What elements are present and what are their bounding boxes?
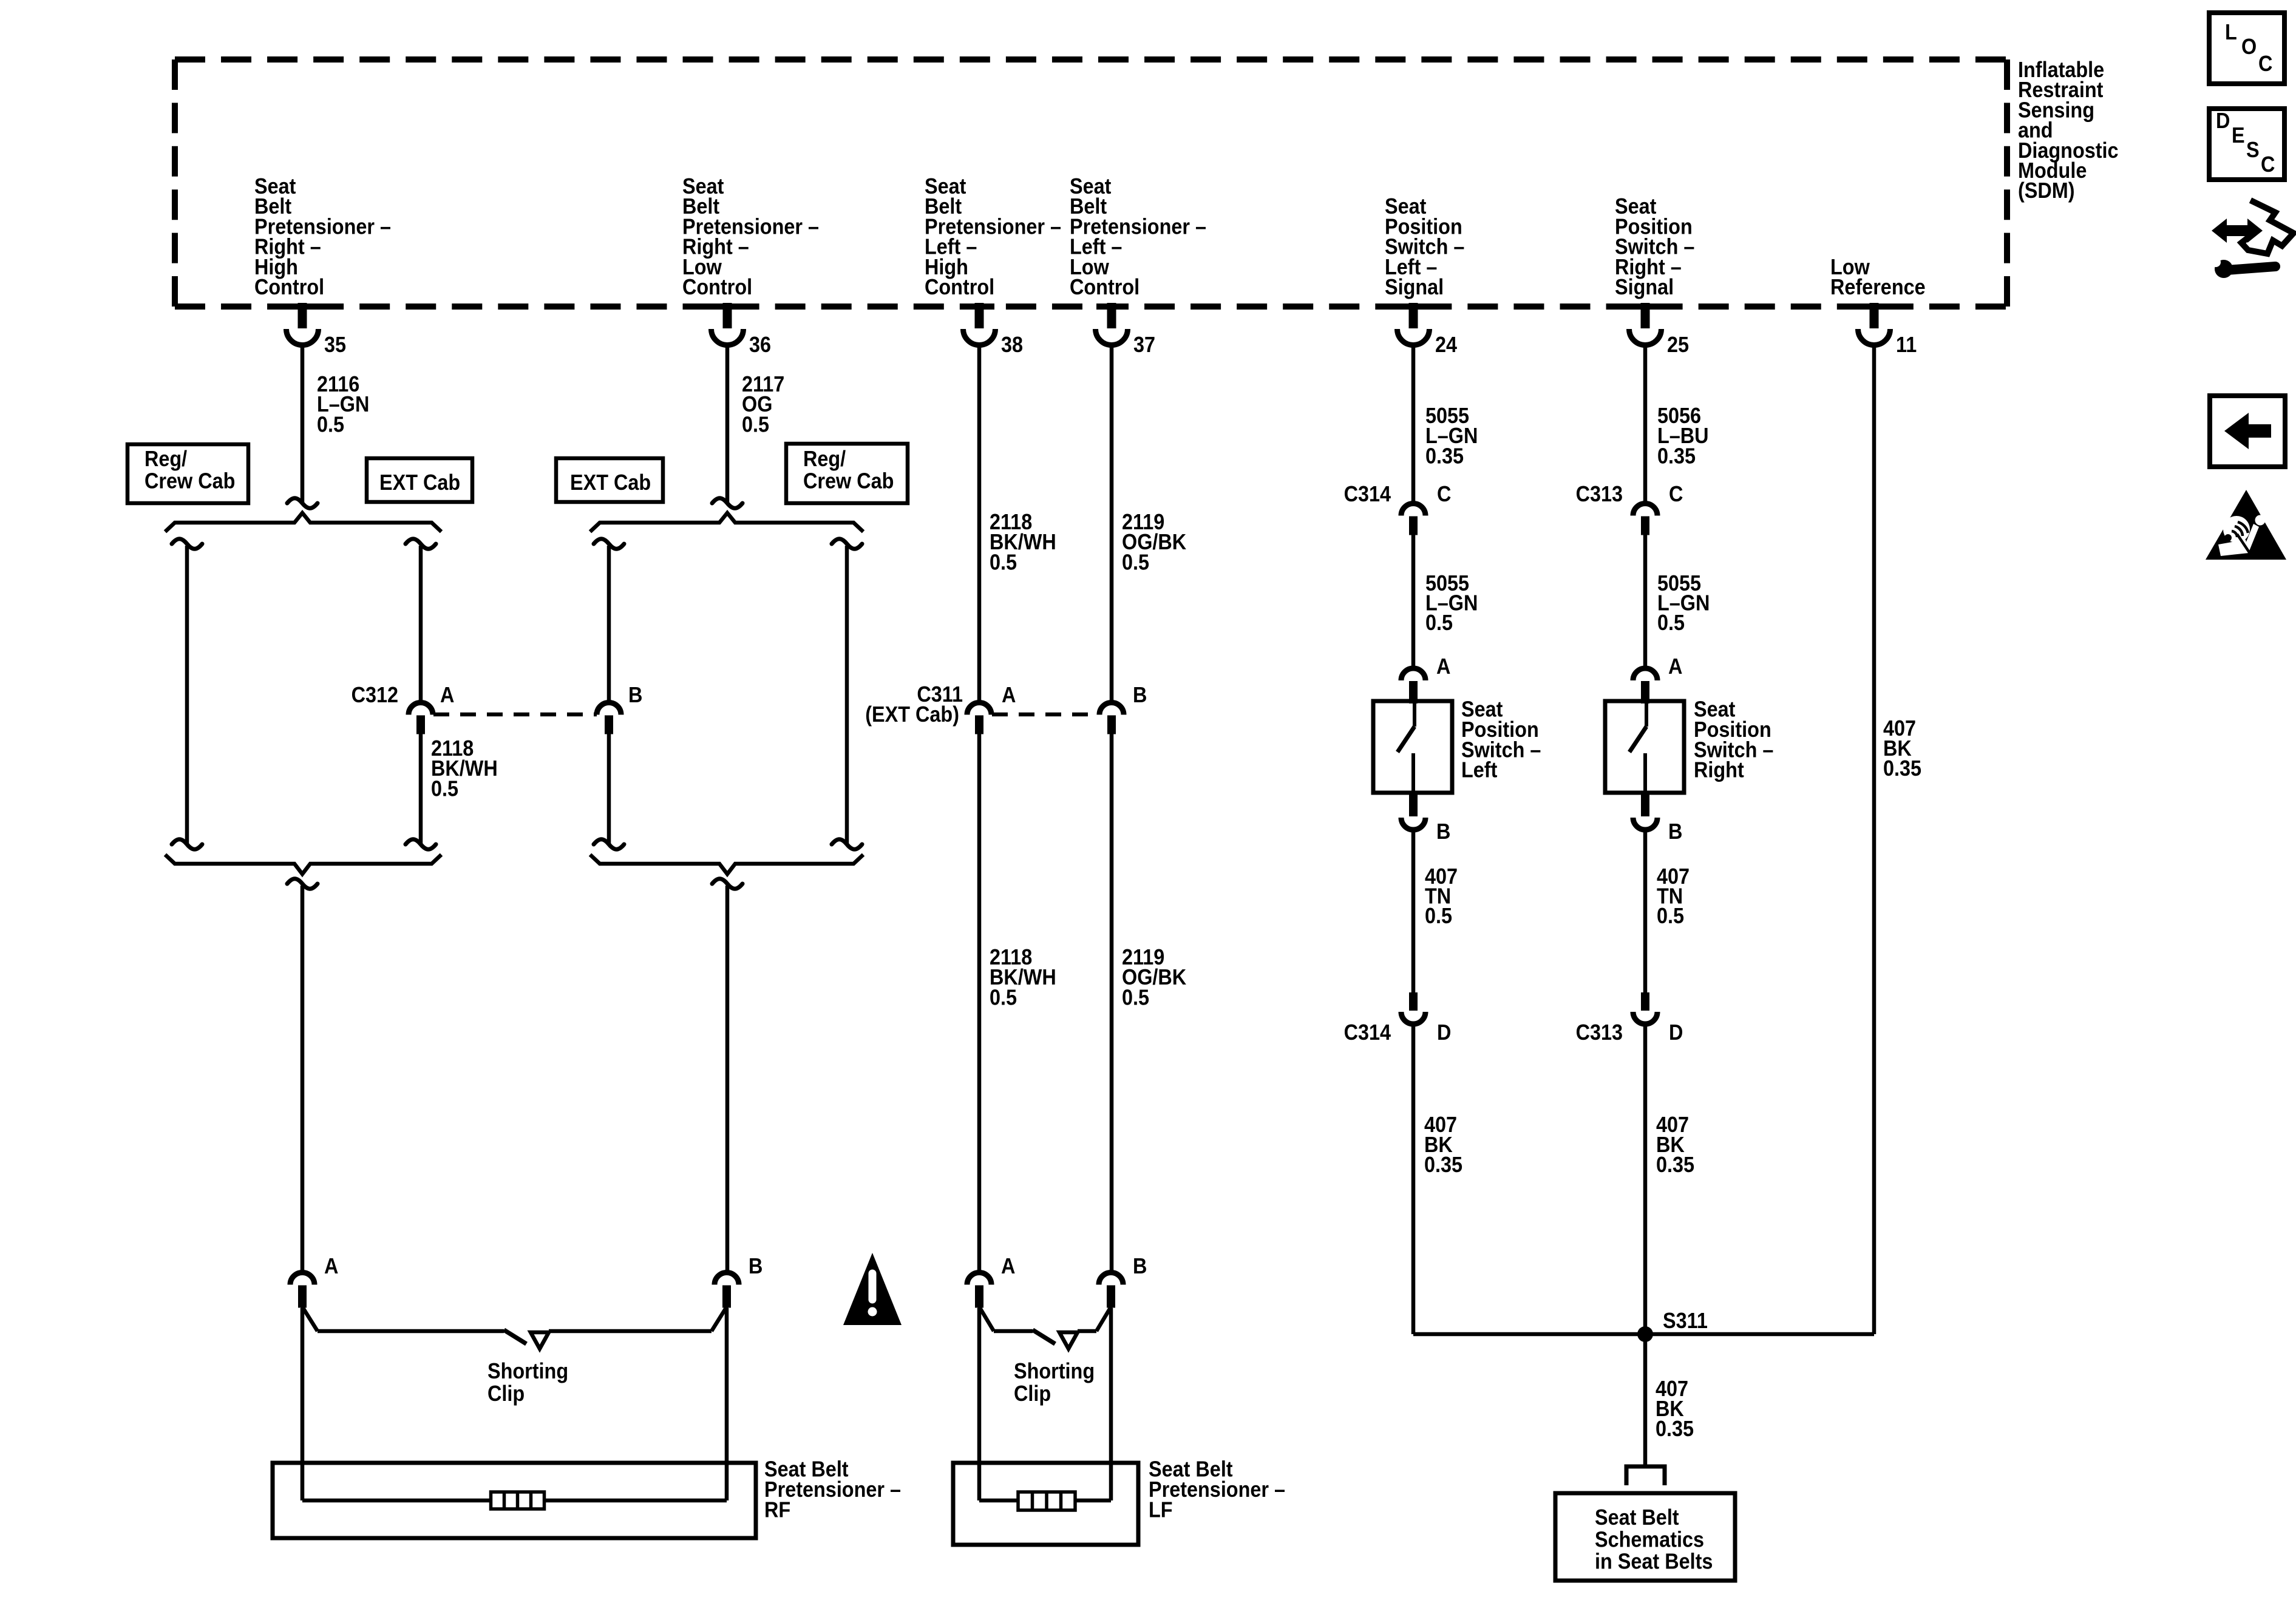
svg-text:Clip: Clip	[1014, 1381, 1051, 1406]
svg-text:B: B	[1133, 1254, 1147, 1278]
svg-text:0.35: 0.35	[1883, 756, 1921, 781]
svg-text:36: 36	[749, 333, 771, 357]
svg-text:B: B	[749, 1254, 763, 1278]
svg-text:Crew Cab: Crew Cab	[803, 469, 894, 493]
svg-text:0.35: 0.35	[1657, 444, 1696, 469]
svg-text:0.5: 0.5	[317, 413, 344, 437]
svg-text:EXT Cab: EXT Cab	[570, 470, 651, 495]
svg-text:(EXT Cab): (EXT Cab)	[865, 703, 959, 727]
svg-text:Left: Left	[1461, 758, 1497, 782]
svg-text:0.5: 0.5	[1657, 904, 1684, 928]
svg-text:Seat Belt: Seat Belt	[1595, 1505, 1679, 1530]
svg-text:Shorting: Shorting	[487, 1359, 568, 1383]
svg-text:D: D	[1437, 1020, 1451, 1045]
svg-text:B: B	[628, 683, 642, 707]
svg-text:Control: Control	[925, 275, 994, 299]
svg-text:11: 11	[1896, 333, 1917, 357]
svg-text:C313: C313	[1576, 482, 1623, 506]
svg-text:(SDM): (SDM)	[2018, 179, 2075, 203]
svg-text:0.5: 0.5	[1425, 904, 1452, 928]
svg-text:0.35: 0.35	[1425, 444, 1464, 469]
svg-text:A: A	[440, 683, 454, 707]
svg-text:LF: LF	[1149, 1498, 1173, 1522]
svg-text:EXT Cab: EXT Cab	[379, 470, 460, 495]
svg-text:D: D	[2216, 109, 2230, 133]
svg-text:Signal: Signal	[1615, 275, 1674, 299]
svg-text:Right: Right	[1694, 758, 1744, 782]
svg-text:C: C	[1669, 482, 1683, 506]
svg-text:C313: C313	[1576, 1020, 1623, 1045]
svg-text:C: C	[1437, 482, 1451, 506]
svg-text:Reference: Reference	[1830, 275, 1926, 299]
svg-text:38: 38	[1001, 333, 1023, 357]
svg-text:L: L	[2225, 20, 2237, 44]
svg-text:RF: RF	[764, 1498, 790, 1522]
svg-text:0.5: 0.5	[1657, 611, 1685, 635]
svg-text:O: O	[2241, 35, 2257, 59]
svg-text:Reg/: Reg/	[144, 447, 188, 471]
svg-text:A: A	[1436, 654, 1450, 679]
svg-text:A: A	[1002, 683, 1016, 707]
svg-text:Control: Control	[254, 275, 324, 299]
svg-text:C314: C314	[1344, 1020, 1391, 1045]
svg-text:Shorting: Shorting	[1014, 1359, 1095, 1383]
svg-text:B: B	[1668, 819, 1682, 844]
svg-text:Clip: Clip	[487, 1381, 525, 1406]
svg-text:0.5: 0.5	[1425, 611, 1453, 635]
svg-text:Crew Cab: Crew Cab	[144, 469, 235, 493]
svg-text:C: C	[2261, 152, 2275, 177]
svg-text:Schematics: Schematics	[1595, 1528, 1704, 1552]
svg-text:B: B	[1436, 819, 1450, 844]
svg-text:in Seat Belts: in Seat Belts	[1595, 1550, 1713, 1574]
svg-text:A: A	[324, 1254, 338, 1278]
svg-text:A: A	[1668, 654, 1682, 679]
svg-text:Reg/: Reg/	[803, 447, 846, 471]
svg-text:25: 25	[1667, 333, 1689, 357]
svg-text:0.5: 0.5	[431, 777, 458, 801]
svg-text:0.5: 0.5	[1122, 986, 1149, 1010]
svg-text:E: E	[2232, 123, 2245, 147]
svg-text:35: 35	[324, 333, 346, 357]
svg-text:0.35: 0.35	[1656, 1153, 1694, 1177]
svg-text:0.5: 0.5	[990, 986, 1017, 1010]
svg-text:0.35: 0.35	[1656, 1417, 1694, 1441]
svg-text:Control: Control	[1070, 275, 1140, 299]
svg-text:B: B	[1133, 683, 1147, 707]
svg-text:0.5: 0.5	[742, 413, 769, 437]
svg-text:A: A	[1001, 1254, 1015, 1278]
svg-text:C314: C314	[1344, 482, 1391, 506]
svg-text:S311: S311	[1663, 1309, 1708, 1333]
svg-text:Signal: Signal	[1385, 275, 1444, 299]
svg-text:37: 37	[1133, 333, 1155, 357]
svg-text:C: C	[2258, 52, 2272, 76]
svg-text:0.5: 0.5	[990, 551, 1017, 575]
svg-text:0.35: 0.35	[1424, 1153, 1462, 1177]
svg-text:0.5: 0.5	[1122, 551, 1149, 575]
svg-text:D: D	[1669, 1020, 1683, 1045]
svg-text:S: S	[2246, 138, 2260, 162]
svg-text:Control: Control	[682, 275, 752, 299]
svg-text:C312: C312	[352, 683, 398, 707]
svg-text:24: 24	[1435, 333, 1457, 357]
